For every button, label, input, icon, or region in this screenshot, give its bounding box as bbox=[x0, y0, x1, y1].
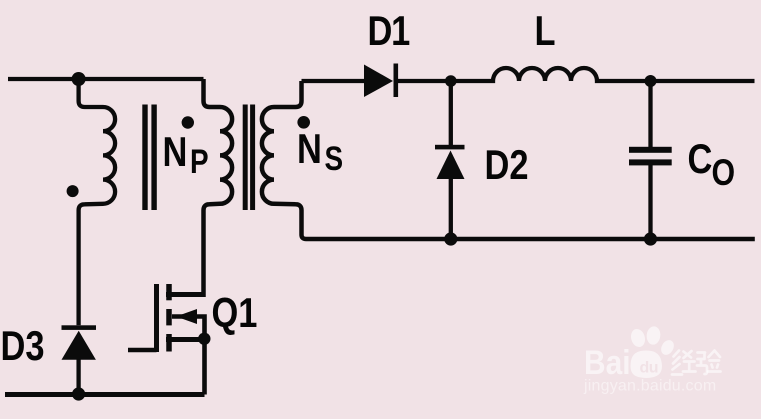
svg-text:Q1: Q1 bbox=[212, 290, 258, 337]
svg-text:D3: D3 bbox=[1, 323, 45, 370]
svg-text:N: N bbox=[297, 126, 322, 173]
svg-text:N: N bbox=[163, 129, 188, 176]
svg-text:D2: D2 bbox=[485, 142, 529, 189]
svg-text:S: S bbox=[325, 139, 344, 177]
svg-text:C: C bbox=[688, 136, 713, 183]
svg-text:Bai: Bai bbox=[584, 343, 631, 381]
svg-text:D1: D1 bbox=[368, 8, 410, 55]
svg-text:P: P bbox=[190, 142, 209, 180]
svg-text:L: L bbox=[535, 8, 556, 55]
svg-text:du: du bbox=[640, 360, 659, 377]
svg-text:jingyan.baidu.com: jingyan.baidu.com bbox=[583, 378, 716, 395]
svg-text:O: O bbox=[712, 152, 736, 194]
